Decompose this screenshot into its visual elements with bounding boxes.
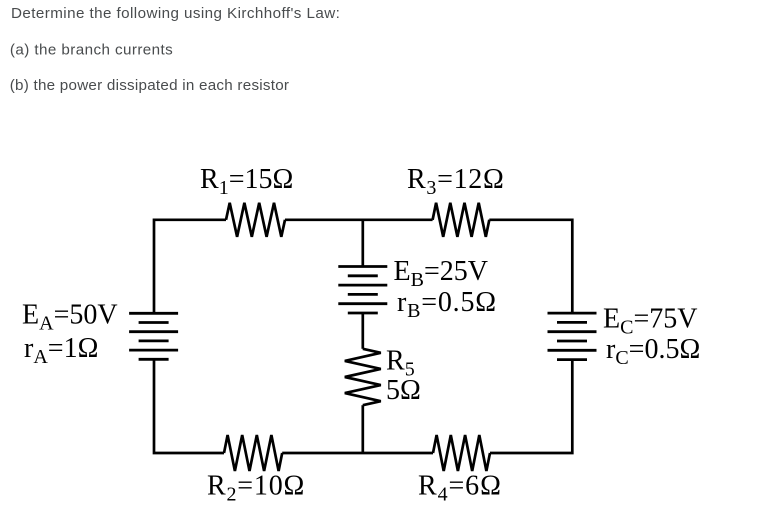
wire middle branch between EB and R5	[361, 313, 364, 349]
svg-text:EA=50V: EA=50V	[22, 300, 118, 335]
wire left branch upper + top-left corner	[154, 220, 226, 313]
svg-text:rB=0.5Ω: rB=0.5Ω	[397, 287, 497, 322]
wire middle branch top (node to EB)	[361, 220, 364, 267]
svg-text:R1=15Ω: R1=15Ω	[200, 164, 293, 199]
resistor R4	[433, 435, 490, 471]
svg-text:R3=12Ω: R3=12Ω	[407, 164, 505, 199]
wire top-right corner + right branch upper	[489, 220, 572, 313]
battery EC	[548, 313, 597, 360]
wire left branch lower + bottom-left corner	[154, 359, 224, 453]
svg-text:Determine the following using: Determine the following using Kirchhoff'…	[11, 5, 340, 22]
svg-text:EB=25V: EB=25V	[394, 256, 488, 291]
svg-text:R4=6Ω: R4=6Ω	[418, 471, 502, 506]
resistor R1	[226, 203, 285, 237]
svg-text:rA=1Ω: rA=1Ω	[24, 333, 98, 368]
svg-text:rC=0.5Ω: rC=0.5Ω	[606, 334, 700, 369]
node top T-junction of middle branch	[361, 218, 364, 221]
wire top middle segment	[285, 218, 433, 221]
svg-text:EC=75V: EC=75V	[603, 303, 697, 338]
svg-text:(a) the branch currents: (a) the branch currents	[10, 41, 173, 58]
resistor R2	[224, 435, 282, 471]
battery EA	[129, 313, 178, 359]
resistor R3	[433, 203, 490, 237]
wire middle branch bottom (R5 to bottom node)	[361, 405, 364, 453]
node bottom T-junction of middle branch	[361, 452, 364, 455]
svg-text:R2=10Ω: R2=10Ω	[207, 471, 305, 506]
battery EB	[338, 267, 387, 314]
svg-text:(b) the power dissipated in ea: (b) the power dissipated in each resisto…	[10, 77, 290, 94]
svg-text:5Ω: 5Ω	[386, 375, 421, 406]
wire right branch lower + bottom-right corner	[490, 360, 572, 453]
wire bottom middle segment	[282, 452, 433, 455]
resistor R5	[345, 349, 381, 405]
